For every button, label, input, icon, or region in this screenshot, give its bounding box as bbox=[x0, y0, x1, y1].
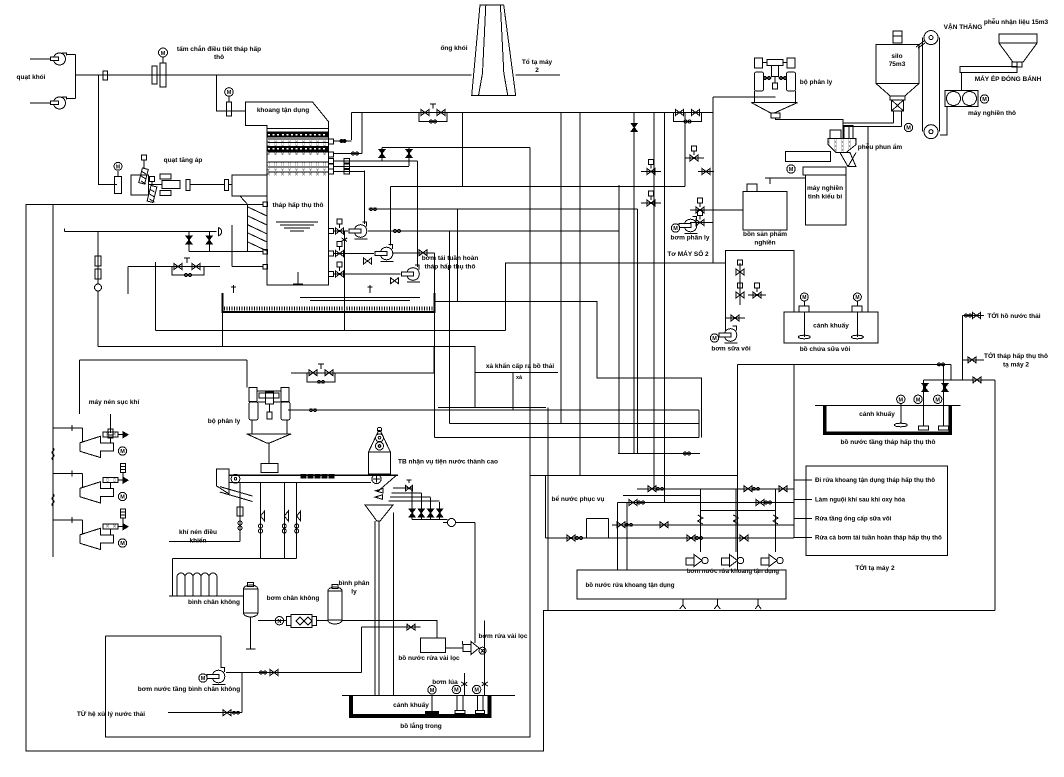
svg-text:N: N bbox=[277, 619, 281, 625]
svg-text:Làm nguội khí sau khi oxy hóa: Làm nguội khí sau khi oxy hóa bbox=[815, 497, 906, 504]
conveyor dashes bbox=[301, 474, 334, 478]
wire comp 3 riser bbox=[110, 529, 112, 535]
absorber left nozzle top bbox=[263, 202, 268, 207]
flex pump feed 1 bbox=[698, 515, 703, 524]
wire x586 loop bbox=[585, 518, 587, 538]
compressor 2 bbox=[80, 482, 114, 503]
wire x685 bbox=[684, 113, 686, 187]
silo feed chute bbox=[916, 41, 925, 48]
pump rua khoang 2 bbox=[722, 555, 744, 567]
valve m4a bbox=[567, 535, 575, 541]
hx dark row 2 bbox=[267, 146, 329, 150]
wire pump2 discharge bbox=[389, 187, 391, 246]
hx x row 3 bbox=[268, 162, 329, 166]
coil binh chan khong bbox=[177, 573, 217, 596]
valve m4b bbox=[687, 535, 695, 541]
wire x475 drop bbox=[474, 523, 476, 644]
flex pump feed 3 bbox=[773, 515, 778, 524]
flex pump feed 2 bbox=[733, 515, 738, 524]
wire x361 bbox=[361, 627, 363, 672]
wire suction crossconnect bbox=[343, 232, 345, 331]
svg-text:bể nước phục vụ: bể nước phục vụ bbox=[551, 495, 604, 503]
wire y518 loop bbox=[586, 517, 608, 519]
wire x545 drop bbox=[545, 476, 547, 539]
wire silo to lime tank bbox=[867, 127, 869, 313]
wire y346 bbox=[98, 347, 475, 408]
wire pump phan ly suction bbox=[713, 209, 743, 211]
motor conveyor bbox=[787, 165, 795, 173]
compressor 1 bbox=[80, 436, 114, 457]
manifold valve 1 bbox=[409, 509, 415, 517]
wire x155 drop bbox=[155, 262, 157, 331]
check m4a bbox=[576, 537, 583, 540]
compressor 3 outlet valve bbox=[103, 524, 128, 530]
pump bom nuoc tang bbox=[207, 668, 226, 685]
agitator lime 1 bbox=[798, 293, 810, 339]
orifice nozzle5 bbox=[344, 170, 350, 174]
svg-text:TỚI hồ nước thải: TỚI hồ nước thải bbox=[987, 311, 1040, 320]
svg-text:TỚI tháp hấp thụ thô: TỚI tháp hấp thụ thô bbox=[984, 351, 1048, 360]
svg-text:Rửa cả bơm tái tuần hoàn tháp: Rửa cả bơm tái tuần hoàn tháp hấp thụ th… bbox=[815, 535, 942, 542]
wire x505 up bbox=[506, 263, 714, 331]
suction nozzle p2 bbox=[329, 251, 334, 256]
wire nozzle3 bbox=[334, 160, 418, 162]
feed box above funnel bbox=[830, 126, 853, 139]
flex 1 bbox=[52, 448, 54, 460]
check m3a bbox=[626, 523, 633, 526]
pump feed drop 1 bbox=[699, 489, 701, 552]
valve sq box b bbox=[736, 283, 744, 298]
distributor funnel bbox=[365, 505, 393, 521]
wire x512 drop bbox=[512, 373, 514, 410]
legend feed vert bbox=[793, 364, 795, 537]
svg-text:xả: xả bbox=[516, 375, 523, 381]
svg-text:bình phân: bình phân bbox=[338, 580, 369, 587]
booster outlet duct box bbox=[232, 175, 267, 196]
valve m1b bbox=[744, 486, 752, 492]
wire pump out y672 bbox=[226, 672, 362, 674]
wire toi thap 2 bbox=[963, 359, 984, 361]
bo phan ly 2 frame bbox=[249, 387, 289, 401]
svg-text:bồ nước rửa khoang tận dụng: bồ nước rửa khoang tận dụng bbox=[586, 582, 675, 589]
main wash header wire bbox=[351, 112, 713, 114]
bo phan ly 2 cyl L bbox=[249, 402, 258, 420]
svg-text:M: M bbox=[227, 90, 232, 96]
svg-text:quạt khói: quạt khói bbox=[17, 74, 46, 81]
wire x634 bbox=[633, 113, 635, 454]
underline xa bbox=[475, 371, 558, 373]
wire duct to box bbox=[229, 184, 233, 186]
svg-text:bơm chân không: bơm chân không bbox=[267, 595, 320, 602]
manifold m3 bbox=[612, 524, 794, 526]
svg-text:ống khói: ống khói bbox=[440, 44, 467, 52]
wire y364 long bbox=[738, 363, 951, 365]
motor cl pump 2 bbox=[473, 685, 481, 693]
svg-text:Đi rửa khoang tận dụng tháp hấ: Đi rửa khoang tận dụng tháp hấp thụ thô bbox=[815, 477, 935, 484]
wire x737 up bbox=[737, 364, 739, 475]
instr dropper 1 bbox=[260, 483, 262, 559]
basin water line bbox=[300, 298, 420, 301]
valve tu he bbox=[223, 710, 231, 716]
valve sq cluster d bbox=[647, 191, 655, 206]
bo phan ly 2 funnel bbox=[247, 434, 291, 443]
phieu phun am funnel bbox=[828, 139, 856, 167]
hx nozzle 2 bbox=[329, 152, 334, 157]
silo 75m3 bbox=[876, 45, 919, 100]
absorber left nozzle mid bbox=[263, 249, 268, 254]
basin dotted bottom bbox=[224, 307, 433, 311]
wire hx nozzle1 riser bbox=[334, 140, 352, 142]
motor tank2 1 bbox=[897, 395, 905, 403]
wire y380 bbox=[924, 379, 995, 381]
svg-text:máy nén sục khí: máy nén sục khí bbox=[89, 399, 140, 406]
wire vessel to pump bbox=[258, 620, 287, 622]
legend tick 2 bbox=[794, 498, 812, 500]
svg-text:máy nghiền: máy nghiền bbox=[807, 183, 843, 192]
svg-text:TỪ hệ xử lý nước thải: TỪ hệ xử lý nước thải bbox=[77, 709, 145, 718]
check cl pump 2 bbox=[482, 673, 488, 695]
motor tank2 2 bbox=[914, 395, 922, 403]
motor bom nuoc tang bbox=[199, 674, 207, 682]
bypass station 2 bbox=[674, 110, 702, 123]
wire pump to vessel2 bbox=[317, 620, 328, 622]
wire x608 loop bbox=[608, 518, 610, 538]
svg-text:M: M bbox=[116, 165, 120, 171]
wire tu he bbox=[168, 712, 242, 714]
check y364 bbox=[938, 363, 945, 366]
motor clarifier bbox=[428, 686, 436, 694]
wire y185 header bbox=[390, 186, 685, 188]
hx x row 1b bbox=[268, 143, 329, 146]
agitator tank2 1 bbox=[894, 403, 907, 427]
stack muffler 3 bbox=[121, 509, 126, 518]
wire box ab bbox=[739, 263, 741, 305]
to may so 2 box bbox=[726, 251, 794, 331]
wire y635 bbox=[105, 635, 221, 637]
hx x row 5 bbox=[268, 172, 329, 176]
motor comp 3 bbox=[118, 539, 126, 547]
valve m3a bbox=[617, 522, 625, 528]
border pipe loop bbox=[26, 205, 995, 751]
wire mill to bon bbox=[769, 178, 771, 184]
wire feed nozzle mid bbox=[189, 251, 263, 253]
wire box to pump bbox=[445, 647, 463, 649]
wire mill chute bbox=[848, 153, 856, 167]
main flue wire right bbox=[516, 74, 560, 76]
booster inlet box bbox=[131, 175, 149, 195]
check m1a bbox=[657, 487, 664, 490]
clarifier pump tube 1 bbox=[455, 695, 465, 713]
svg-text:khiển: khiển bbox=[190, 537, 207, 545]
slant damper 2 bbox=[147, 177, 157, 203]
wire x950 drop bbox=[950, 364, 952, 380]
pump rua khoang 1 bbox=[686, 555, 708, 567]
booster fan body bbox=[149, 174, 181, 196]
valve pump2 side bbox=[419, 250, 427, 256]
binh phan ly vessel bbox=[328, 585, 342, 624]
wire absorber to basin R bbox=[369, 285, 371, 293]
hopper phieu nhan lieu bbox=[999, 34, 1037, 67]
check m2a bbox=[638, 501, 645, 504]
wire cluster c bbox=[698, 171, 714, 173]
vessel drain tee bbox=[246, 648, 256, 650]
clarifier pump tube 2 bbox=[475, 695, 484, 713]
wire cluster b bbox=[641, 171, 661, 173]
wire cluster f bbox=[690, 222, 713, 224]
flex 2 bbox=[52, 494, 54, 506]
check crossconnect bbox=[342, 238, 348, 241]
valve m3b bbox=[660, 522, 668, 528]
wire pump3 riser short bbox=[408, 148, 410, 166]
bypass station 1 bbox=[419, 110, 447, 123]
wire comp 3 inlet bbox=[53, 519, 83, 521]
compressor 3 bbox=[80, 528, 114, 549]
valve cluster c bbox=[702, 169, 710, 175]
distributor left bracket bbox=[217, 469, 229, 494]
wire cluster d bbox=[641, 202, 661, 204]
fan quat khoi 2 bbox=[51, 97, 76, 109]
wire x434 upper bbox=[433, 253, 435, 293]
wire comp 3 inlet drop bbox=[82, 520, 84, 534]
valve m1a bbox=[648, 486, 656, 492]
dropper filter bbox=[237, 507, 243, 516]
hx dark row 1 bbox=[267, 132, 329, 137]
check m1b bbox=[753, 487, 760, 490]
wire x962 vert bbox=[962, 316, 964, 380]
suction valve pump2 bbox=[336, 242, 344, 257]
duct hopper to crusher bbox=[960, 62, 1017, 73]
wire x394 drop bbox=[393, 513, 395, 696]
wire x155 up bbox=[155, 262, 157, 267]
wire y410 long bbox=[288, 409, 699, 411]
inner loop bbox=[105, 148, 530, 738]
wire x580 drop bbox=[579, 113, 581, 476]
motor valve khoang bbox=[225, 88, 234, 116]
suction valve pump1 bbox=[336, 219, 344, 234]
hx nozzle 4 bbox=[329, 164, 334, 169]
svg-text:bơm lúa: bơm lúa bbox=[432, 679, 458, 686]
valve y380 bbox=[973, 377, 981, 383]
valve sq cluster b bbox=[647, 160, 655, 175]
wire x995 drop bbox=[994, 380, 996, 610]
svg-text:bồn sản phẩm: bồn sản phẩm bbox=[743, 229, 787, 238]
wire x561 drop bbox=[560, 113, 562, 424]
wire x449 down bbox=[449, 231, 451, 424]
manifold m1b bbox=[623, 495, 700, 497]
motor bom sua voi bbox=[710, 334, 718, 342]
valve sq box c bbox=[753, 283, 761, 298]
check y410 bbox=[310, 409, 317, 412]
drip leg device bbox=[95, 232, 102, 347]
wire y330 feed bbox=[156, 330, 506, 332]
svg-text:bộ phân ly: bộ phân ly bbox=[208, 418, 241, 425]
check m4b bbox=[696, 537, 703, 540]
svg-text:cánh khuấy: cánh khuấy bbox=[393, 701, 429, 709]
svg-text:tấm chắn điều tiết tháp hấp: tấm chắn điều tiết tháp hấp bbox=[177, 44, 261, 53]
valve m2a bbox=[629, 500, 637, 506]
vessel drain bbox=[250, 618, 252, 650]
valve small p3side bbox=[391, 278, 399, 284]
ball mill may nghien tinh bbox=[803, 167, 846, 225]
bo nuoc rua khoang box bbox=[577, 570, 786, 599]
wire suction pump1 bbox=[334, 230, 349, 232]
wire intake drop bbox=[246, 360, 248, 387]
silo discharge duct bbox=[843, 111, 902, 127]
svg-text:tạ máy 2: tạ máy 2 bbox=[1003, 362, 1029, 369]
hx x row 4 bbox=[268, 167, 329, 171]
wire x627 into box bbox=[626, 503, 628, 570]
svg-text:khoang tận dụng: khoang tận dụng bbox=[257, 107, 309, 114]
absorber left nozzle low bbox=[263, 264, 268, 269]
wire drop x232 bbox=[231, 225, 233, 267]
wire x242 up bbox=[241, 673, 243, 713]
hx x row 2 bbox=[268, 152, 329, 155]
legend tick 3 bbox=[794, 517, 812, 519]
wire x664 bbox=[664, 113, 666, 503]
wire phan ly drop bbox=[712, 97, 714, 113]
motor bom phan ly bbox=[671, 224, 679, 232]
valve I p2 bbox=[379, 150, 385, 158]
wire y423 bbox=[450, 423, 699, 425]
wire cluster a bbox=[685, 157, 704, 159]
valve box d bbox=[731, 315, 739, 321]
fan quat khoi 1 bbox=[51, 53, 76, 65]
bo phan ly 1 cyl R bbox=[787, 72, 796, 91]
valve riser a bbox=[922, 384, 928, 392]
svg-text:bộ phân ly: bộ phân ly bbox=[800, 79, 833, 86]
svg-text:bồ chứa sữa vôi: bồ chứa sữa vôi bbox=[800, 344, 851, 353]
valve sq box a bbox=[736, 260, 744, 275]
bo phan ly 1 filter bbox=[764, 66, 787, 90]
bucket elevator van thang bbox=[922, 31, 939, 139]
khoang tan dung box bbox=[246, 102, 329, 129]
suction nozzle p3 bbox=[329, 272, 334, 277]
wire muffler3 bbox=[122, 518, 124, 525]
agitator lime 2 bbox=[851, 293, 863, 339]
legend tick 1 bbox=[794, 479, 812, 481]
fan1 inlet wire bbox=[30, 58, 51, 60]
booster outlet flange bbox=[186, 180, 190, 191]
manifold valve 2 bbox=[418, 509, 424, 517]
manifold wire 2 bbox=[392, 492, 422, 494]
manifold valve 4 bbox=[437, 509, 443, 517]
svg-text:Tơ MÁY SỐ 2: Tơ MÁY SỐ 2 bbox=[667, 248, 709, 258]
main flue wire bbox=[75, 74, 472, 76]
wire feed nozzle low bbox=[232, 266, 263, 268]
bo phan ly 2 cyl R bbox=[281, 402, 290, 420]
wire x700 join bbox=[698, 410, 700, 437]
check tu he bbox=[233, 711, 240, 714]
stack muffler 2 bbox=[121, 464, 126, 473]
wire x713 mid bbox=[712, 97, 714, 263]
valve I x634 bbox=[631, 123, 637, 131]
compressor 1 outlet valve bbox=[103, 432, 128, 438]
valve m4c bbox=[740, 535, 748, 541]
wire intake left drop bbox=[79, 360, 81, 414]
check m2b bbox=[765, 501, 772, 504]
wire nozzle4 bbox=[334, 165, 410, 167]
wire phan ly to silo line bbox=[713, 96, 776, 98]
wire intake manifold bbox=[52, 205, 54, 557]
duct flange bbox=[225, 180, 229, 191]
wire comp1 riser up bbox=[110, 414, 112, 433]
wire basin drop x222 bbox=[222, 312, 224, 347]
hx nozzle 1 bbox=[329, 139, 334, 144]
silo top vent bbox=[893, 31, 902, 43]
coil base wire bbox=[169, 595, 243, 597]
svg-text:nghiền: nghiền bbox=[754, 238, 775, 247]
chimney ong khoi bbox=[472, 5, 516, 96]
bo phan ly 1 cyl L bbox=[755, 72, 764, 91]
drain zigzag 2 bbox=[714, 599, 720, 609]
wire hopper to crusher bbox=[961, 73, 963, 91]
svg-text:M: M bbox=[161, 51, 166, 57]
svg-text:2: 2 bbox=[535, 67, 539, 74]
wire booster duct bbox=[190, 184, 225, 186]
hx nozzle 3 bbox=[329, 158, 334, 163]
manifold valve 3 bbox=[428, 509, 434, 517]
motor damper assembly bbox=[152, 48, 168, 87]
branch wire to khoang bbox=[217, 75, 246, 111]
riser tank2 b bbox=[943, 364, 945, 405]
svg-text:bơm sữa vôi: bơm sữa vôi bbox=[711, 346, 751, 353]
svg-text:M: M bbox=[855, 295, 859, 301]
bypass station 3 bbox=[307, 370, 335, 383]
valve toi thap bbox=[968, 357, 976, 363]
pump bom rua vai loc bbox=[463, 642, 486, 655]
svg-text:TB nhận vụ tiện nước thành cao: TB nhận vụ tiện nước thành cao bbox=[398, 459, 498, 466]
check cl pump 1 bbox=[461, 673, 467, 695]
wire drop x189 bbox=[188, 232, 190, 252]
wire x434 seg bbox=[433, 347, 435, 373]
manifold wire 3 bbox=[390, 496, 431, 498]
instr dropper 2 bbox=[283, 483, 285, 559]
check y209 bbox=[370, 208, 377, 211]
valve I p3 bbox=[406, 150, 412, 158]
pump bom tai tuan hoan 3 bbox=[402, 265, 421, 282]
drain zigzag 3 bbox=[755, 599, 761, 609]
check y453 bbox=[684, 452, 691, 455]
wire pump1 up discharge bbox=[364, 171, 366, 224]
basin overflow wire bbox=[434, 302, 701, 438]
svg-text:Tổ tạ máy: Tổ tạ máy bbox=[522, 58, 553, 66]
svg-text:tinh kiểu bi: tinh kiểu bi bbox=[808, 193, 843, 201]
conveyor under funnel bbox=[786, 151, 831, 161]
vacuum pump body bbox=[287, 615, 317, 628]
clarifier walls bbox=[351, 695, 490, 716]
check y672 a bbox=[260, 671, 267, 674]
wire x547 drop bbox=[547, 408, 549, 611]
inline damper V1 bbox=[103, 71, 108, 80]
pump bom tai tuan hoan 2 bbox=[375, 245, 394, 262]
A-frame hoist bbox=[369, 427, 391, 474]
motor cl pump 1 bbox=[452, 685, 460, 693]
wire suction pump2 bbox=[334, 253, 375, 255]
wire cluster e bbox=[690, 209, 713, 211]
valve toi ho bbox=[973, 313, 981, 319]
pump rua khoang 3 bbox=[761, 555, 783, 567]
funnel downpipe R bbox=[378, 521, 380, 695]
spray header wire y204 bbox=[26, 204, 263, 206]
wire x654 bbox=[653, 113, 655, 489]
motor crusher bbox=[980, 95, 988, 103]
svg-text:máy nghiền thô: máy nghiền thô bbox=[968, 108, 1016, 117]
svg-text:MÁY ÉP ĐÓNG BÁNH: MÁY ÉP ĐÓNG BÁNH bbox=[975, 74, 1042, 83]
instr dropper valves 2 bbox=[282, 511, 288, 533]
wire y558 bbox=[173, 558, 297, 560]
motor silo duct bbox=[904, 123, 912, 131]
pump feed drop 3 bbox=[775, 489, 777, 552]
